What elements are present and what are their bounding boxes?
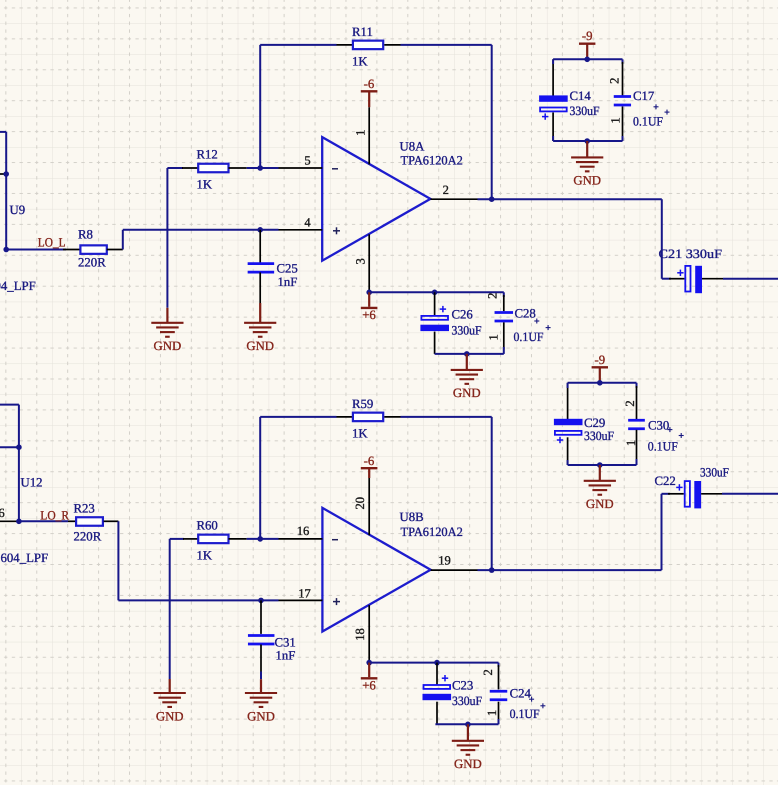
pin 19 output line — [431, 569, 478, 571]
resistor R60 — [197, 519, 229, 563]
wire vertical left bus bottom — [18, 405, 20, 522]
svg-text:1: 1 — [485, 710, 499, 716]
wire R12 to GND vertical — [166, 168, 168, 308]
svg-text:2: 2 — [607, 78, 621, 84]
junction U12 node A — [16, 444, 22, 450]
svg-text:19: 19 — [438, 554, 451, 568]
svg-text:-6: -6 — [364, 454, 375, 468]
maroon stem R12 GND — [166, 308, 168, 322]
parameter markers C30 — [667, 429, 672, 431]
power port -9 (bottom) — [592, 353, 608, 383]
wire output up to C22 — [661, 494, 663, 570]
wire R60 to GND vertical — [169, 539, 171, 679]
power port -6 (U8B V-) — [361, 454, 378, 478]
capacitor C21 330uF output electrolytic — [659, 247, 724, 293]
resistor R12 — [197, 148, 229, 192]
svg-text:330uF: 330uF — [700, 466, 729, 480]
junction LO_R node — [16, 519, 22, 525]
wire -9 rail top — [553, 58, 622, 60]
svg-text:C25: C25 — [277, 262, 298, 276]
ground under R60 — [154, 693, 186, 723]
svg-text:LO_R: LO_R — [40, 509, 69, 523]
svg-text:GND: GND — [156, 709, 184, 723]
svg-text:U12: U12 — [21, 476, 43, 490]
pin 17 line — [279, 599, 323, 601]
svg-text:C21 330uF: C21 330uF — [659, 247, 723, 261]
wire U12 stub node — [0, 446, 19, 448]
capacitor C26 330uF electrolytic — [420, 292, 481, 354]
junction LO_L node — [3, 247, 9, 253]
junction C31 top — [258, 598, 264, 604]
capacitor C17 0.1UF — [607, 59, 663, 141]
capacitor C23 330uF electrolytic — [423, 663, 483, 725]
wire output down to C21 — [661, 199, 663, 279]
wire V+ rail right — [435, 291, 504, 293]
junction GND C29/C30 — [597, 462, 603, 468]
svg-text:0.1UF: 0.1UF — [510, 707, 540, 721]
svg-text:1: 1 — [486, 334, 500, 340]
ground under C29/C30 — [584, 481, 616, 511]
pin 2 output line — [430, 198, 477, 200]
svg-text:GND: GND — [246, 339, 274, 353]
resistor R59 — [352, 397, 383, 441]
junction C25 top — [257, 227, 263, 233]
parameter markers C17 — [654, 106, 659, 108]
pin R60 left — [183, 538, 198, 540]
junction pin3 V+ node — [366, 290, 372, 296]
pin 3 line — [368, 234, 370, 292]
wire R8 to opamp+ vertical — [122, 230, 124, 250]
pin stub into LO_R — [0, 520, 19, 522]
svg-text:C26: C26 — [452, 307, 474, 321]
maroon stem C29 GND — [599, 465, 601, 480]
maroon stem C14 GND — [586, 141, 588, 157]
svg-text:R60: R60 — [197, 519, 218, 533]
svg-text:20: 20 — [353, 497, 367, 510]
svg-text:04_LPF: 04_LPF — [0, 279, 36, 293]
junction R12/R11 inverting node — [257, 165, 263, 171]
wire feedback vertical bottom — [259, 417, 261, 539]
pin R60 right — [229, 538, 247, 540]
ground under C31 — [245, 693, 277, 723]
svg-text:1: 1 — [624, 440, 638, 446]
wire output net horizontal bottom — [478, 569, 662, 571]
maroon stem C26 GND — [466, 354, 468, 369]
wire to opamp non-inverting input bottom — [118, 599, 278, 601]
svg-text:C22: C22 — [655, 474, 676, 488]
svg-text:6: 6 — [0, 506, 5, 520]
svg-text:604_LPF: 604_LPF — [1, 551, 49, 565]
wire from U9 output into sheet — [0, 131, 6, 133]
svg-text:2: 2 — [443, 183, 449, 197]
svg-text:4: 4 — [304, 215, 311, 229]
wire V+ block bottom rail — [435, 353, 504, 355]
svg-text:3: 3 — [354, 258, 368, 264]
svg-text:-6: -6 — [364, 77, 375, 91]
power port +6 (U8B V+) — [361, 663, 378, 693]
power port -9 (top) — [579, 29, 595, 59]
wire V+ block bottom rail bottom — [435, 723, 498, 725]
junction GND C23/C24 — [465, 722, 471, 728]
svg-text:U8A: U8A — [400, 140, 426, 154]
junction C26 top — [432, 290, 438, 296]
wire R23 down vertical — [117, 521, 119, 600]
svg-text:17: 17 — [298, 586, 311, 600]
svg-text:1nF: 1nF — [276, 648, 296, 662]
wire feedback to output vertical — [491, 45, 493, 199]
pin R12 right — [229, 167, 247, 169]
wire inverting input net — [247, 167, 279, 169]
svg-text:LO_L: LO_L — [38, 236, 66, 250]
svg-text:GND: GND — [454, 757, 482, 771]
svg-text:1K: 1K — [352, 55, 368, 69]
junction pin18 V+ node — [366, 660, 372, 666]
wire to opamp non-inverting input — [123, 229, 279, 231]
svg-text:R12: R12 — [197, 148, 218, 162]
wire output to right edge bottom — [722, 493, 778, 495]
wire stub C14 top — [552, 59, 554, 64]
junction output/feedback bottom — [489, 567, 495, 573]
parameter markers C28 — [534, 320, 539, 322]
wire from U12 output into sheet — [0, 404, 19, 406]
pin stub U9 pin at LO_L feedback node — [0, 173, 6, 175]
svg-text:GND: GND — [573, 174, 601, 188]
svg-text:220R: 220R — [78, 256, 106, 270]
svg-text:2: 2 — [623, 400, 637, 406]
svg-text:C30: C30 — [648, 419, 669, 433]
ground under C14/C17 — [571, 157, 603, 187]
svg-text:1: 1 — [354, 130, 368, 136]
wire output net horizontal — [478, 198, 662, 200]
junction C23 top — [434, 660, 440, 666]
wire stub C14 bottom — [552, 136, 554, 141]
capacitor C25 1nF — [248, 230, 298, 303]
svg-text:C31: C31 — [275, 635, 296, 649]
wire -9 block bottom rail — [553, 140, 622, 142]
svg-text:220R: 220R — [74, 529, 102, 543]
svg-text:R59: R59 — [352, 397, 373, 411]
svg-text:GND: GND — [154, 339, 182, 353]
svg-text:2: 2 — [481, 669, 495, 675]
svg-text:C17: C17 — [633, 89, 655, 103]
maroon stem C31 GND — [260, 679, 262, 692]
svg-text:-9: -9 — [582, 29, 593, 43]
svg-text:1K: 1K — [197, 178, 213, 192]
resistor R11 — [352, 25, 383, 69]
junction output/feedback — [489, 196, 495, 202]
junction U9 node A — [3, 171, 9, 177]
svg-text:R8: R8 — [78, 228, 93, 242]
wire feedback to output vertical bottom — [491, 417, 493, 570]
pin 18 line — [368, 605, 370, 663]
junction -9 rail — [584, 57, 590, 63]
junction -9 rail bottom — [597, 380, 603, 386]
wire output to right edge — [723, 278, 778, 280]
capacitor C14 330uF electrolytic — [539, 59, 599, 141]
wire feedback to output horizontal — [401, 44, 492, 46]
svg-text:GND: GND — [586, 497, 614, 511]
svg-text:C28: C28 — [515, 306, 536, 320]
svg-text:R23: R23 — [74, 502, 95, 516]
svg-text:GND: GND — [453, 386, 481, 400]
ground under C23/C24 — [452, 741, 484, 771]
junction GND C14/C17 — [584, 138, 590, 144]
wire -9 rail top bottom-section — [568, 382, 637, 384]
pin 4 line — [279, 229, 323, 231]
svg-text:+6: +6 — [362, 678, 376, 692]
pin R59 left — [337, 416, 353, 418]
resistor R8 — [78, 228, 107, 270]
svg-text:330uF: 330uF — [452, 324, 482, 338]
svg-text:TPA6120A2: TPA6120A2 — [401, 525, 463, 539]
capacitor C22 330uF output electrolytic — [655, 466, 730, 509]
wire stub C29 top — [567, 383, 569, 388]
pin 20 line — [368, 478, 370, 535]
wire stub C29 bottom — [567, 460, 569, 465]
pin R11 left — [337, 44, 353, 46]
svg-text:GND: GND — [247, 709, 275, 723]
wire V+ rail right bottom — [437, 662, 499, 664]
svg-text:+6: +6 — [362, 308, 376, 322]
wire LO_L net — [6, 249, 66, 251]
svg-text:TPA6120A2: TPA6120A2 — [401, 154, 463, 168]
op-amp U8B TPA6120A2 — [322, 508, 462, 632]
pin R59 right — [384, 416, 400, 418]
svg-text:C24: C24 — [510, 687, 532, 701]
pin R11 right — [384, 44, 400, 46]
wire -9 block bottom rail bottom-section — [568, 464, 637, 466]
svg-text:C23: C23 — [452, 678, 473, 692]
junction R60/R59 inverting node — [257, 536, 263, 542]
svg-text:0.1UF: 0.1UF — [648, 440, 678, 454]
power port +6 (U8A V+) — [361, 292, 378, 322]
wire inverting input net bottom — [247, 538, 279, 540]
pin 5 line — [279, 167, 323, 169]
maroon stem C23 GND — [467, 724, 469, 740]
op-amp U8A TPA6120A2 — [322, 137, 463, 261]
pin R8 left — [63, 249, 80, 251]
svg-text:C14: C14 — [570, 89, 592, 103]
wire V+ rail left — [369, 291, 434, 293]
svg-text:16: 16 — [297, 524, 310, 538]
ground under C25 — [244, 323, 276, 353]
wire V+ rail left bottom — [369, 662, 437, 664]
svg-text:1nF: 1nF — [278, 275, 298, 289]
svg-text:330uF: 330uF — [452, 694, 482, 708]
wire feedback vertical — [259, 45, 261, 168]
wire feedback top horizontal — [260, 44, 336, 46]
pin R8 right — [107, 249, 123, 251]
capacitor C28 0.1UF — [485, 292, 543, 354]
wire feedback top horizontal bottom — [260, 416, 336, 418]
maroon stem R60 GND — [169, 679, 171, 692]
capacitor C31 1nF — [248, 600, 296, 679]
power port -6 (U8A V-) — [361, 77, 378, 107]
capacitor C24 0.1UF — [481, 663, 540, 725]
wire R12 left stub — [167, 167, 183, 169]
svg-text:1: 1 — [608, 117, 622, 123]
svg-text:0.1UF: 0.1UF — [633, 114, 663, 128]
svg-text:-9: -9 — [594, 353, 605, 367]
capacitor C30 0.1UF — [623, 383, 678, 465]
svg-text:330uF: 330uF — [584, 429, 614, 443]
svg-text:0.1UF: 0.1UF — [514, 330, 544, 344]
ground under R12 — [151, 323, 183, 353]
svg-text:330uF: 330uF — [570, 104, 600, 118]
svg-text:5: 5 — [304, 154, 310, 168]
junction GND C26/C28 — [464, 351, 470, 357]
pin 1 line — [368, 107, 370, 164]
wire R60 left stub — [170, 538, 184, 540]
wire feedback to output horizontal bottom — [401, 416, 492, 418]
svg-text:R11: R11 — [352, 25, 373, 39]
pin R23 right — [104, 520, 119, 522]
resistor R23 — [74, 502, 103, 544]
pin R12 left — [182, 167, 198, 169]
ground under C26/C28 — [451, 370, 483, 400]
svg-text:1K: 1K — [197, 549, 213, 563]
wire vertical left bus — [5, 132, 7, 250]
pin R23 left — [68, 520, 75, 522]
svg-text:1K: 1K — [352, 427, 368, 441]
wire LO_R net — [19, 520, 68, 522]
capacitor C29 330uF electrolytic — [554, 383, 614, 465]
svg-text:U8B: U8B — [400, 510, 424, 524]
svg-text:18: 18 — [353, 628, 367, 641]
svg-text:2: 2 — [485, 293, 499, 299]
svg-text:U9: U9 — [10, 203, 26, 217]
maroon stem C25 GND — [259, 303, 261, 322]
pin 16 line — [279, 538, 323, 540]
parameter markers C24 — [529, 698, 534, 700]
